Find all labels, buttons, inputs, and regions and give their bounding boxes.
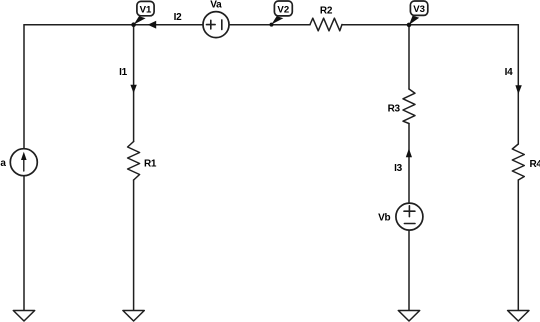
svg-text:R1: R1	[144, 158, 157, 169]
Va plus sign	[207, 20, 216, 29]
resistor R4	[512, 144, 524, 180]
wire V1 branch lower	[133, 180, 135, 311]
Vb plus sign	[404, 206, 415, 217]
current arrow I3	[406, 149, 412, 158]
voltage source Vb circle	[396, 203, 423, 230]
current arrow I1	[130, 85, 136, 94]
current source Ia circle	[10, 149, 37, 176]
wire left vertical lower	[23, 176, 25, 311]
ground V3 branch	[398, 311, 419, 322]
Vb minus bar	[404, 223, 415, 225]
voltage source Va circle	[203, 12, 229, 38]
wire Va to R2	[229, 24, 310, 26]
wire R3 to Vb	[408, 124, 410, 204]
ground V1 branch	[123, 311, 144, 322]
svg-text:V2: V2	[277, 4, 289, 15]
junction dot V3	[407, 23, 412, 28]
svg-text:Vb: Vb	[378, 213, 390, 224]
wire R2 to right corner	[342, 24, 518, 26]
svg-text:R3: R3	[388, 103, 401, 114]
wire V3 branch upper	[408, 25, 410, 89]
svg-text:V3: V3	[413, 4, 425, 15]
svg-text:I1: I1	[119, 67, 127, 78]
junction dot V1	[131, 22, 136, 27]
resistor R2	[310, 18, 342, 31]
junction dot V2	[270, 23, 274, 27]
node label V3 box	[410, 1, 427, 15]
Ia arrow shaft	[23, 158, 25, 171]
svg-text:R2: R2	[320, 5, 333, 16]
svg-text:I2: I2	[174, 12, 182, 23]
Va minus bar (rotated)	[221, 20, 223, 30]
wire right vertical upper	[517, 25, 519, 144]
ground right	[508, 311, 529, 322]
node label V1 tail	[134, 16, 146, 24]
wire Vb to ground	[408, 230, 410, 311]
current arrow I2	[148, 21, 157, 29]
Ia arrow head	[21, 152, 27, 160]
ground left	[13, 311, 34, 322]
node label V1 box	[137, 1, 154, 15]
svg-text:I4: I4	[505, 67, 513, 78]
resistor R3	[403, 89, 415, 124]
svg-text:I3: I3	[394, 163, 402, 174]
wire top left horizontal	[24, 24, 203, 26]
wire V1 branch upper	[133, 25, 135, 142]
node label V3 tail	[409, 16, 419, 25]
svg-text:Va: Va	[210, 0, 222, 10]
node label V2 tail	[272, 16, 284, 24]
current arrow I4	[515, 85, 521, 94]
svg-text:Ia: Ia	[0, 158, 6, 169]
wire left vertical upper	[23, 25, 25, 149]
svg-text:R4: R4	[530, 159, 540, 170]
svg-text:V1: V1	[140, 4, 152, 15]
node label V2 box	[274, 1, 292, 16]
wire R4 to ground	[517, 180, 519, 311]
resistor R1	[128, 142, 140, 181]
